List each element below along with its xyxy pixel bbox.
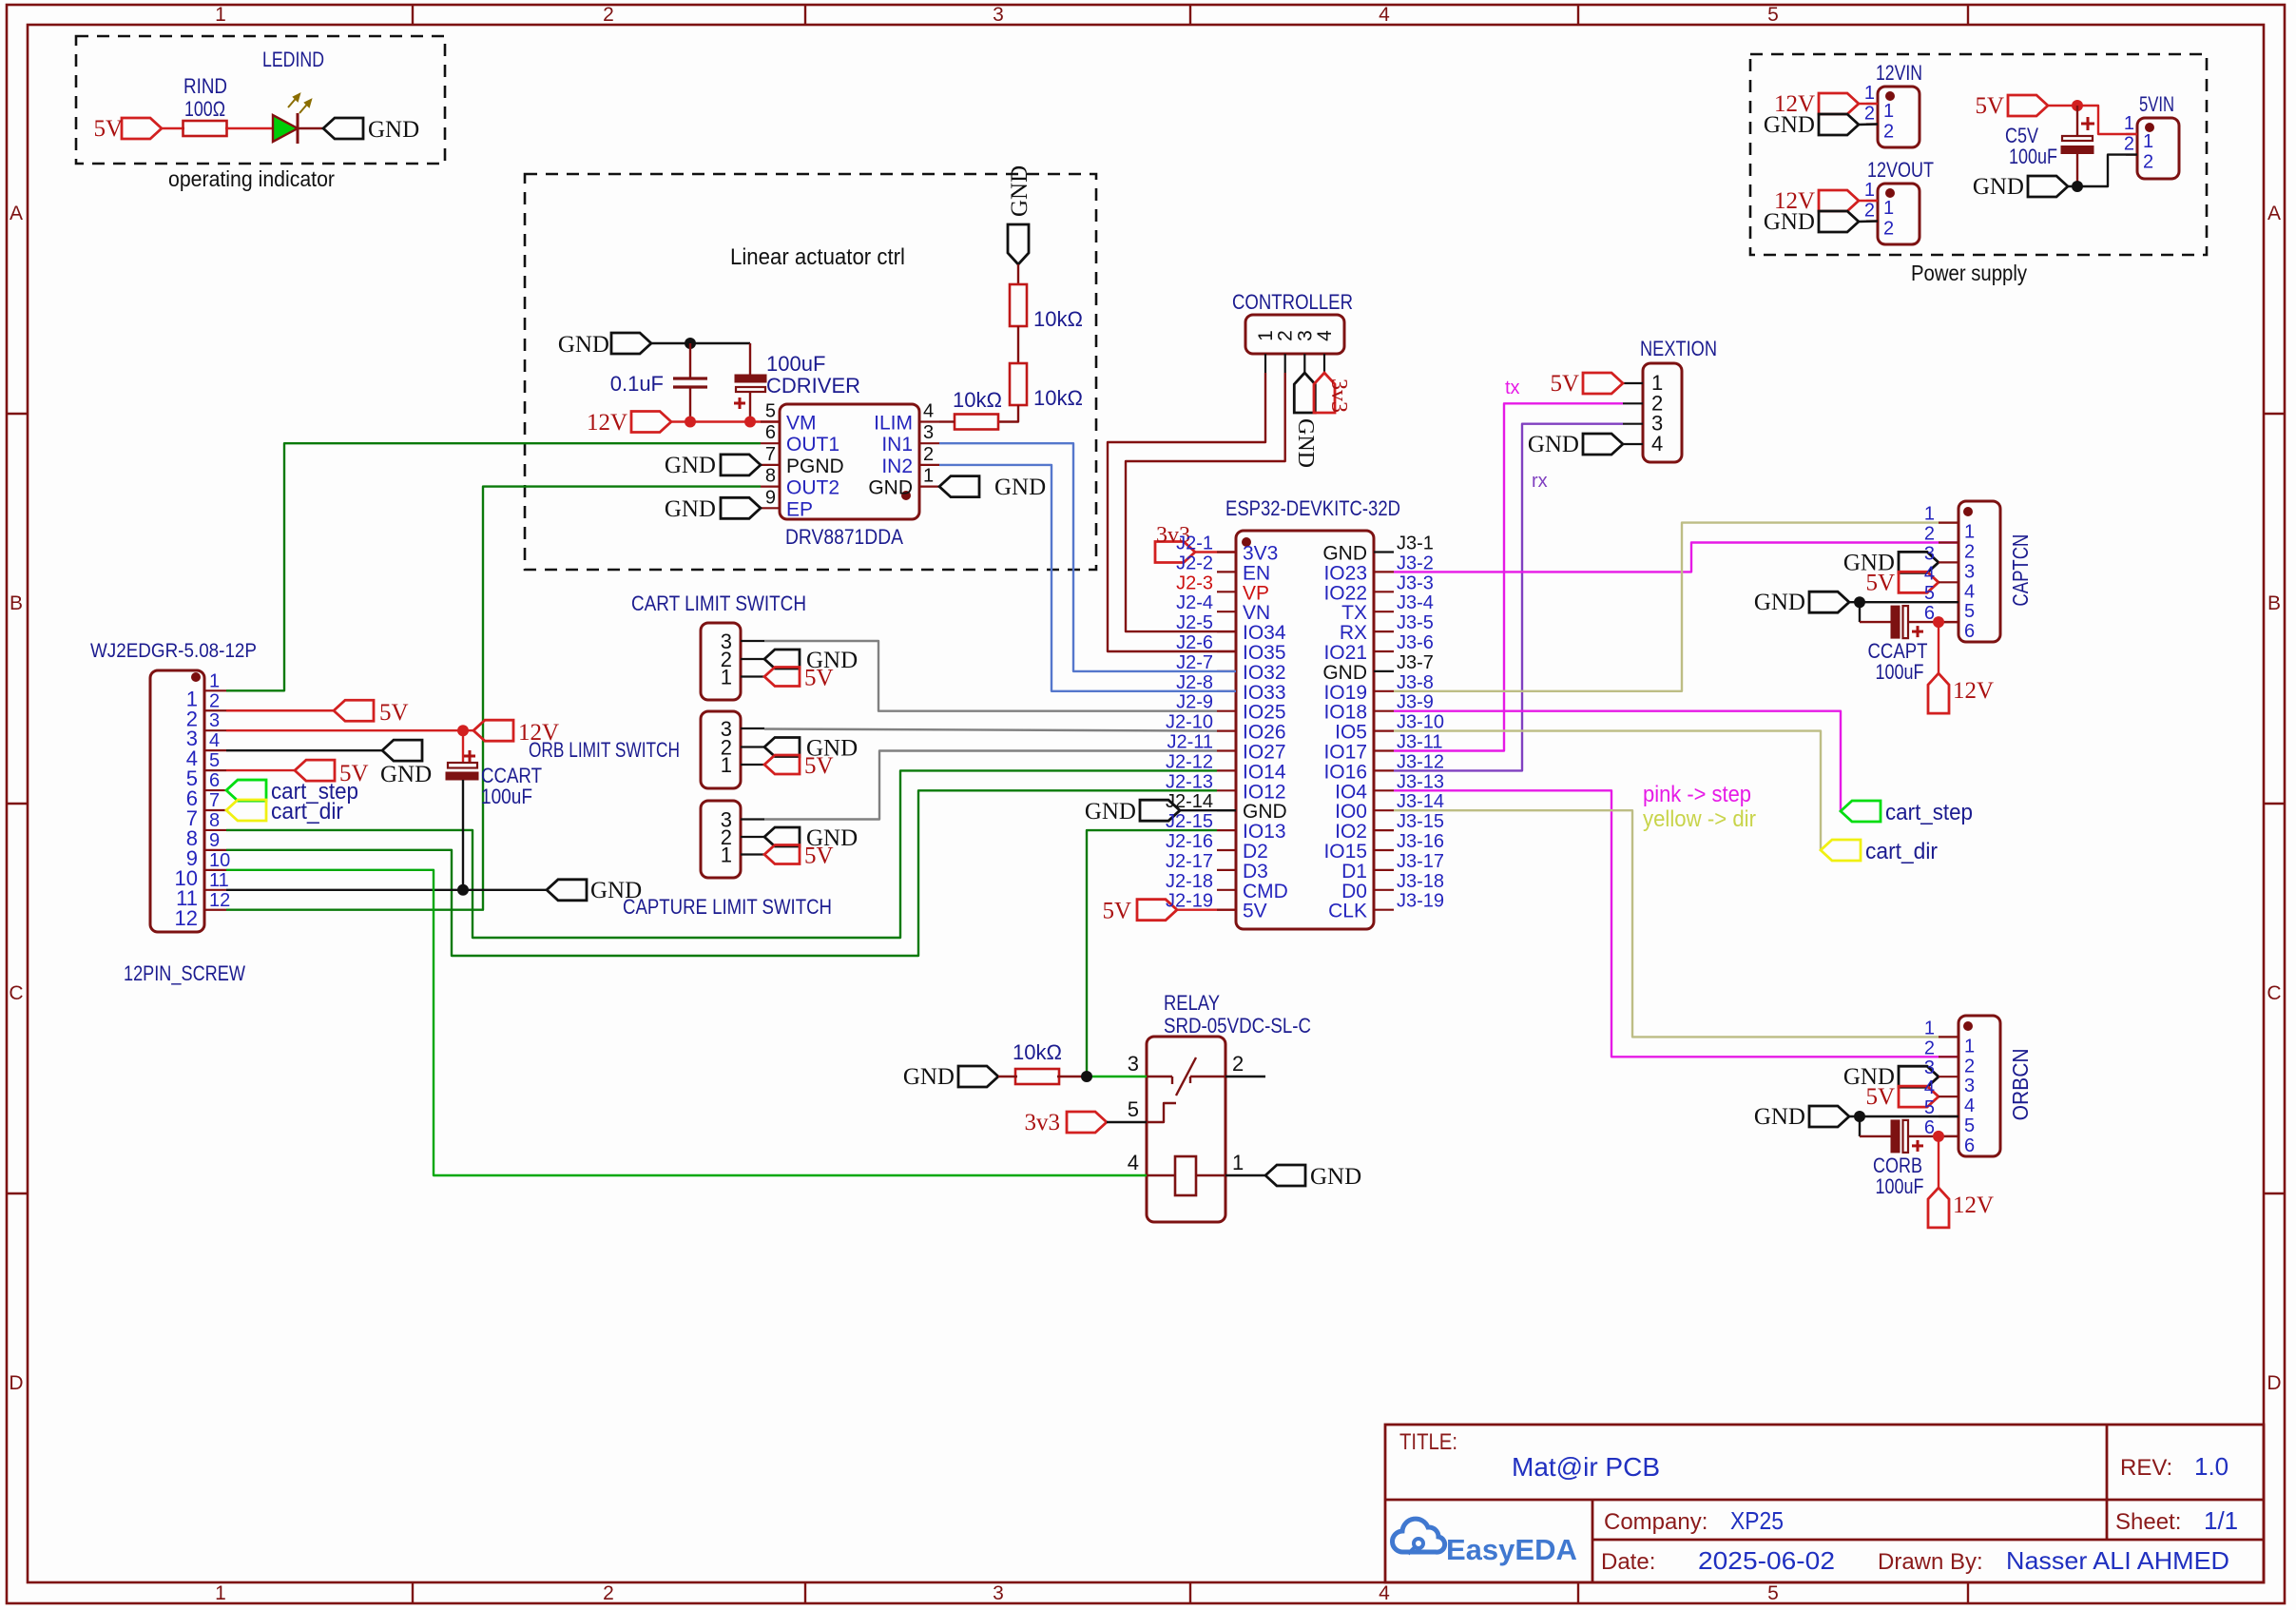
svg-text:ESP32-DEVKITC-32D: ESP32-DEVKITC-32D	[1225, 496, 1400, 520]
svg-text:IO17: IO17	[1323, 742, 1367, 764]
connector 5VIN	[2137, 118, 2179, 179]
svg-text:4: 4	[1924, 563, 1935, 584]
svg-text:RX: RX	[1340, 622, 1367, 644]
svg-text:GND: GND	[558, 332, 609, 358]
C5V plus sign	[2081, 123, 2094, 126]
svg-text:IO5: IO5	[1335, 722, 1367, 744]
relay K1 body	[1147, 1037, 1225, 1222]
svg-text:IO22: IO22	[1323, 582, 1367, 604]
svg-text:J3-12: J3-12	[1397, 751, 1444, 772]
connector NEXTION	[1643, 363, 1682, 462]
ORB LIMIT SWITCH pin 1	[741, 764, 764, 766]
svg-text:6: 6	[1964, 621, 1975, 642]
svg-text:J3-4: J3-4	[1397, 592, 1434, 613]
12PIN pin 10	[204, 869, 226, 871]
svg-text:4: 4	[1379, 1582, 1390, 1604]
svg-text:5V: 5V	[1975, 93, 2004, 119]
svg-text:4: 4	[1924, 1077, 1935, 1098]
svg-text:GND: GND	[994, 475, 1046, 500]
title block frame	[1385, 1425, 2264, 1582]
svg-text:4: 4	[1651, 432, 1663, 456]
svg-text:2: 2	[209, 690, 220, 711]
net flag cart_dir	[1821, 840, 1861, 861]
svg-text:B: B	[10, 592, 23, 614]
svg-text:5: 5	[765, 401, 776, 422]
svg-text:4: 4	[1379, 4, 1390, 26]
svg-text:EasyEDA: EasyEDA	[1446, 1533, 1577, 1566]
net flag 5V (ESP32 J2-19)	[1137, 900, 1177, 921]
ORBCN pin 4	[1939, 1096, 1958, 1097]
junction CCART / GND	[457, 884, 469, 896]
net flag 5V (12PIN pin5)	[226, 769, 295, 771]
ESP32 pin J3-18 D0	[1374, 889, 1394, 891]
capacitor CCAPT leads	[1859, 602, 1861, 622]
DRV8871 pin 1 GND	[919, 486, 939, 488]
svg-text:J2-17: J2-17	[1166, 851, 1213, 872]
wire R1 to R2	[1017, 326, 1019, 363]
svg-text:100uF: 100uF	[2009, 145, 2057, 168]
net flag 12V (CAPTCN)	[1928, 673, 1949, 713]
svg-text:2: 2	[1964, 542, 1975, 563]
svg-text:1: 1	[1883, 101, 1894, 122]
ORBCN pin1 marker	[1963, 1021, 1973, 1031]
svg-text:J3-13: J3-13	[1397, 771, 1444, 792]
svg-text:J3-14: J3-14	[1397, 791, 1444, 812]
svg-text:J3-11: J3-11	[1397, 732, 1443, 753]
svg-text:IO25: IO25	[1243, 702, 1286, 724]
svg-text:5V: 5V	[93, 116, 123, 142]
relay switch blade	[1176, 1057, 1196, 1096]
net flag 5V (5VIN)	[2008, 95, 2048, 116]
svg-text:IO12: IO12	[1243, 781, 1286, 803]
DRV8871 pin 6 OUT1	[761, 442, 780, 444]
12VOUT pin1 marker	[1885, 188, 1895, 198]
svg-text:1: 1	[215, 1582, 226, 1604]
svg-text:VP: VP	[1243, 582, 1269, 604]
net flag 12V (12VOUT)	[1819, 190, 1859, 211]
capacitor C5V leads	[2076, 106, 2078, 137]
svg-text:Nasser ALI AHMED: Nasser ALI AHMED	[2006, 1546, 2229, 1575]
svg-text:J2-18: J2-18	[1166, 871, 1213, 892]
svg-text:3: 3	[1294, 330, 1316, 341]
dashed box power supply	[1750, 54, 2207, 255]
CART LIMIT SWITCH pin 3	[741, 640, 764, 642]
svg-text:100uF: 100uF	[1876, 660, 1924, 684]
wire IO5 to cart_dir (khaki)	[1394, 731, 1821, 850]
svg-text:GND: GND	[1243, 801, 1287, 823]
ESP32 pin J3-11 IO17	[1374, 749, 1394, 751]
svg-text:0.1uF: 0.1uF	[610, 372, 664, 396]
svg-text:2: 2	[1864, 104, 1875, 125]
12PIN pin 11	[204, 889, 226, 891]
svg-text:J3-5: J3-5	[1397, 612, 1434, 633]
svg-text:1: 1	[721, 666, 732, 689]
wire GND to CAPTCN pin5	[1849, 601, 1958, 603]
CONTROLLER pin 4	[1323, 354, 1325, 373]
svg-text:12V: 12V	[1953, 1193, 1994, 1218]
12VOUT pin 2	[1866, 220, 1878, 222]
wire 12PIN pin8 to IO14 (green)	[226, 770, 1217, 938]
net flag 5V (ORB LIMIT SWITCH)	[764, 755, 800, 774]
wire GND to R1	[1017, 264, 1019, 284]
svg-text:PGND: PGND	[786, 456, 844, 477]
ESP32 pin J2-13 IO12	[1217, 789, 1236, 791]
svg-text:5V: 5V	[804, 753, 834, 779]
wire OUT1 to 12PIN pin1 (green)	[226, 443, 761, 690]
wire RIND to LED	[225, 127, 273, 129]
svg-text:1: 1	[1924, 504, 1935, 525]
svg-text:IO16: IO16	[1323, 761, 1367, 783]
net flag cart_step (12PIN pin6)	[226, 780, 266, 801]
5VIN pin1 marker	[2145, 123, 2154, 132]
svg-text:J3-7: J3-7	[1397, 652, 1434, 673]
svg-text:4: 4	[209, 730, 220, 751]
svg-text:6: 6	[765, 422, 776, 443]
wire CONTROLLER pin1 to IO35	[1108, 373, 1265, 651]
ORB LIMIT SWITCH pin 2	[741, 746, 764, 747]
ESP32 pin J3-5 RX	[1374, 630, 1394, 632]
capacitor CCART	[462, 730, 464, 764]
svg-text:J3-10: J3-10	[1397, 712, 1444, 733]
net flag GND (CAPTCN pin3)	[1899, 552, 1939, 572]
ESP32 pin J2-15 IO13	[1217, 829, 1236, 831]
svg-text:Power supply: Power supply	[1911, 261, 2027, 285]
wire CART SW to IO25 (grey)	[764, 641, 1217, 711]
ORBCN pin 5	[1939, 1115, 1958, 1117]
svg-text:GND: GND	[868, 477, 913, 499]
CONTROLLER pin 1	[1264, 354, 1266, 373]
junction GND / C5V	[2072, 181, 2083, 192]
svg-text:4: 4	[1964, 581, 1975, 602]
dashed box operating indicator	[76, 36, 445, 164]
net flag GND (5VIN)	[2028, 176, 2068, 197]
net flag 12V (driver)	[631, 412, 671, 433]
svg-text:9: 9	[209, 830, 220, 851]
svg-text:2025-06-02: 2025-06-02	[1698, 1546, 1835, 1575]
junction GND / cap (CAPTCN)	[1854, 596, 1865, 608]
net flag GND (ORB LIMIT SWITCH)	[764, 738, 800, 757]
svg-text:TITLE:: TITLE:	[1399, 1429, 1457, 1455]
svg-text:12PIN_SCREW: 12PIN_SCREW	[124, 961, 245, 985]
svg-text:CART LIMIT SWITCH: CART LIMIT SWITCH	[631, 592, 806, 615]
capacitor 0.1uF	[689, 343, 691, 378]
svg-text:CAPTCN: CAPTCN	[2008, 534, 2033, 607]
svg-text:2: 2	[1924, 524, 1935, 545]
junction relay pin3	[1081, 1071, 1092, 1082]
DRV8871 pin 8 OUT2	[761, 486, 780, 488]
svg-text:1: 1	[2124, 113, 2134, 134]
svg-text:5V: 5V	[1865, 1084, 1895, 1110]
svg-text:Date:: Date:	[1601, 1549, 1655, 1575]
svg-text:DRV8871DDA: DRV8871DDA	[785, 525, 903, 549]
svg-text:GND: GND	[380, 762, 432, 787]
net flag 5V (ORBCN pin4)	[1899, 1086, 1939, 1107]
wire GND (12PIN pin11)	[226, 889, 547, 891]
svg-text:C: C	[9, 982, 23, 1004]
svg-text:NEXTION: NEXTION	[1640, 337, 1717, 360]
svg-text:5V: 5V	[1243, 901, 1267, 922]
svg-text:J2-1: J2-1	[1176, 533, 1213, 554]
12VIN pin 2	[1866, 123, 1878, 125]
svg-text:J2-9: J2-9	[1176, 692, 1213, 713]
svg-text:IO18: IO18	[1323, 702, 1367, 724]
svg-text:ORBCN: ORBCN	[2008, 1048, 2033, 1120]
svg-text:GND: GND	[1973, 174, 2024, 200]
svg-text:yellow -> dir: yellow -> dir	[1643, 806, 1756, 832]
svg-text:1: 1	[1964, 522, 1975, 543]
svg-text:Drawn By:: Drawn By:	[1878, 1549, 1983, 1575]
svg-text:6: 6	[209, 770, 220, 791]
CAPTCN pin 6	[1939, 621, 1958, 623]
svg-text:Linear actuator ctrl: Linear actuator ctrl	[730, 244, 905, 270]
svg-text:IO13: IO13	[1243, 821, 1286, 843]
svg-text:IO35: IO35	[1243, 642, 1286, 664]
svg-text:cart_dir: cart_dir	[1865, 839, 1938, 864]
svg-text:5: 5	[1964, 601, 1975, 622]
svg-text:3v3: 3v3	[1326, 378, 1351, 413]
svg-text:4: 4	[923, 401, 934, 422]
svg-text:5: 5	[1767, 1582, 1779, 1604]
DRV8871 pin 3 IN1	[919, 442, 939, 444]
svg-text:SRD-05VDC-SL-C: SRD-05VDC-SL-C	[1164, 1014, 1311, 1038]
net flag 12V (ORBCN)	[1928, 1188, 1949, 1228]
svg-text:10kΩ: 10kΩ	[1013, 1040, 1062, 1064]
wire 12V riser (CAPTCN)	[1938, 622, 1939, 673]
connector ORB LIMIT SWITCH	[701, 711, 741, 788]
12PIN pin 6	[204, 789, 226, 791]
connector 12VIN	[1878, 87, 1920, 147]
svg-text:Mat@ir PCB: Mat@ir PCB	[1512, 1452, 1660, 1482]
net flag GND (ESP32 J2-14)	[1140, 800, 1180, 821]
svg-text:D3: D3	[1243, 861, 1268, 883]
svg-text:CMD: CMD	[1243, 881, 1288, 902]
ESP32 pin J3-15 IO2	[1374, 829, 1394, 831]
12PIN pin 5	[204, 769, 226, 771]
resistor RIND	[183, 121, 227, 136]
ESP32 pin J2-5 IO34	[1217, 630, 1236, 632]
svg-text:GND: GND	[1310, 1164, 1361, 1190]
ESP32 pin J3-7 GND	[1374, 670, 1394, 672]
ESP32 pin J3-8 IO19	[1374, 690, 1394, 692]
ESP32 pin1 marker	[1242, 537, 1251, 547]
CAPTCN pin 2	[1939, 541, 1958, 543]
CAPTURE LIMIT SWITCH pin 1	[741, 853, 764, 855]
ESP32 pin J2-10 IO26	[1217, 729, 1236, 731]
svg-text:operating indicator: operating indicator	[168, 166, 335, 191]
wire junction to relay pin3 (green)	[1087, 1076, 1147, 1077]
LED arrows	[288, 94, 311, 113]
svg-text:9: 9	[765, 487, 776, 508]
12VIN pin1 marker	[1885, 91, 1895, 101]
svg-text:VM: VM	[786, 413, 817, 435]
svg-text:10kΩ: 10kΩ	[953, 388, 1002, 412]
svg-text:J3-17: J3-17	[1397, 851, 1444, 872]
wire CONTROLLER pin2 to IO34	[1126, 373, 1285, 631]
svg-text:3: 3	[209, 710, 220, 731]
net flag GND (driver caps)	[611, 333, 651, 354]
svg-text:GND: GND	[903, 1064, 955, 1090]
svg-text:12VOUT: 12VOUT	[1867, 158, 1934, 182]
svg-text:3V3: 3V3	[1243, 543, 1278, 565]
wire 5V to 5VIN pin1	[2048, 106, 2137, 134]
net flag 3v3 (CONTROLLER pin4)	[1314, 373, 1335, 413]
net flag 5V (12PIN pin2)	[226, 709, 334, 711]
NEXTION pin 3	[1623, 423, 1643, 425]
junction 12V / CCART	[457, 725, 469, 736]
svg-text:J2-3: J2-3	[1176, 572, 1213, 593]
wire 12V (12PIN pin3)	[226, 729, 473, 731]
wire IO18 to cart_step (magenta)	[1394, 711, 1841, 811]
svg-text:RIND: RIND	[183, 74, 227, 98]
wire GND to ORBCN pin5	[1849, 1115, 1958, 1117]
svg-text:5V: 5V	[1102, 899, 1131, 924]
junction 12V / CDRIVER	[744, 417, 756, 428]
svg-text:GND: GND	[1764, 112, 1815, 138]
op-amp U1 DRV8871DDA body	[780, 404, 919, 519]
wire GND to 5VIN pin2	[2068, 155, 2137, 186]
wire ORB SW to IO26 (grey)	[764, 729, 1217, 731]
net flag GND (indicator)	[323, 118, 363, 139]
connector 12VOUT	[1878, 184, 1920, 244]
svg-text:3: 3	[993, 4, 1004, 26]
5VIN pin 2	[2126, 154, 2137, 156]
ORB LIMIT SWITCH pin 3	[741, 727, 764, 729]
ESP32 pin J2-2 EN	[1217, 571, 1236, 572]
wire rx NEXTION pin3 to IO16	[1394, 424, 1623, 771]
capacitor CDRIVER 100uF	[749, 343, 751, 377]
capacitor plates (ORBCN)	[1891, 1120, 1900, 1153]
svg-text:J3-15: J3-15	[1397, 811, 1444, 832]
ESP32 pin J2-1 3V3	[1217, 551, 1236, 553]
ESP32 pin J2-12 IO14	[1217, 769, 1236, 771]
svg-text:1: 1	[209, 670, 220, 691]
svg-text:3v3: 3v3	[1025, 1110, 1061, 1135]
svg-text:LEDIND: LEDIND	[262, 48, 324, 71]
NEXTION pin 2	[1623, 402, 1643, 404]
wire IO13 to relay junction (green)	[1087, 830, 1217, 1077]
12PIN pin 1	[204, 689, 226, 691]
svg-text:OUT1: OUT1	[786, 434, 839, 456]
net flag cart_dir (12PIN pin7)	[226, 800, 266, 821]
svg-text:J3-16: J3-16	[1397, 831, 1444, 852]
svg-text:6: 6	[1964, 1135, 1975, 1156]
svg-text:8: 8	[765, 466, 776, 487]
relay switch contacts	[1147, 1076, 1172, 1077]
ESP32 pin J2-16 D2	[1217, 849, 1236, 851]
net flag GND (ILIM chain, rotated)	[1008, 224, 1029, 264]
svg-text:5: 5	[1964, 1115, 1975, 1136]
resistor R1 10k (vertical)	[1010, 284, 1027, 326]
svg-text:1: 1	[1964, 1036, 1975, 1057]
svg-text:100Ω: 100Ω	[184, 97, 225, 121]
svg-text:XP25: XP25	[1730, 1506, 1784, 1535]
svg-text:IO32: IO32	[1243, 662, 1286, 684]
svg-text:WJ2EDGR-5.08-12P: WJ2EDGR-5.08-12P	[90, 640, 257, 662]
svg-text:CLK: CLK	[1328, 901, 1367, 922]
relay coil	[1175, 1156, 1196, 1195]
wire tx NEXTION pin2 to IO17	[1394, 403, 1623, 750]
svg-text:IO4: IO4	[1335, 781, 1367, 803]
svg-text:cart_dir: cart_dir	[271, 799, 343, 824]
CAPTCN pin 5	[1939, 601, 1958, 603]
ESP32 pin J3-10 IO5	[1374, 729, 1394, 731]
DRV8871 pin 4 ILIM	[919, 420, 939, 422]
junction 12V / cap (CAPTCN)	[1933, 616, 1944, 628]
svg-text:5: 5	[1924, 583, 1935, 604]
wire IO23 to CAPTCN pin2 (magenta)	[1394, 543, 1958, 572]
wire IN1 to IO32 (blue)	[939, 443, 1236, 671]
svg-text:CAPTURE LIMIT SWITCH: CAPTURE LIMIT SWITCH	[623, 895, 832, 919]
CAPTCN pin 4	[1939, 581, 1958, 583]
NEXTION pin 4	[1623, 443, 1643, 445]
wire relay pin1 to GND	[1225, 1174, 1265, 1176]
CAPTCN pin 1	[1939, 521, 1958, 523]
ESP32 pin J2-6 IO35	[1217, 650, 1236, 652]
capacitor plates (CAPTCN)	[1891, 606, 1900, 638]
svg-text:GND: GND	[1764, 209, 1815, 235]
svg-text:IO33: IO33	[1243, 682, 1286, 704]
chip U2 ESP32-DEVKITC-32D body	[1236, 531, 1374, 929]
svg-text:2: 2	[2143, 152, 2153, 173]
wire OUT2 (green)	[226, 487, 761, 910]
net flag 3v3 (ESP32 3V3)	[1155, 542, 1195, 563]
net flag GND (DRV GND pin)	[939, 476, 979, 497]
wire 12V to 12VOUT pin1	[1859, 200, 1878, 202]
svg-text:2: 2	[1964, 1056, 1975, 1077]
svg-text:3: 3	[1128, 1052, 1139, 1076]
svg-text:J2-6: J2-6	[1176, 632, 1213, 653]
frame row ticks left	[7, 413, 28, 415]
svg-text:100uF: 100uF	[481, 785, 532, 808]
svg-text:J3-1: J3-1	[1397, 533, 1434, 554]
svg-text:GND: GND	[1322, 662, 1367, 684]
frame row ticks right	[2264, 413, 2285, 415]
svg-text:C: C	[2267, 982, 2281, 1004]
cap plus sign (CAPTCN)	[1912, 630, 1923, 633]
svg-text:TX: TX	[1341, 602, 1367, 624]
ESP32 pin J3-6 IO21	[1374, 650, 1394, 652]
net flag GND (EP)	[721, 497, 761, 518]
svg-text:12V: 12V	[1953, 678, 1994, 704]
net flag GND (relay R4)	[958, 1066, 998, 1087]
svg-text:CDRIVER: CDRIVER	[766, 374, 860, 398]
wire GND to 12VOUT pin2	[1859, 220, 1878, 223]
svg-text:GND: GND	[1754, 590, 1805, 615]
svg-text:1: 1	[215, 4, 226, 26]
svg-text:8: 8	[209, 810, 220, 831]
svg-text:1.0: 1.0	[2194, 1452, 2228, 1481]
net flag GND (12VIN)	[1819, 114, 1859, 135]
svg-text:J3-3: J3-3	[1397, 572, 1434, 593]
svg-text:IO15: IO15	[1323, 841, 1367, 863]
net flag GND (CAPTCN pin5)	[1809, 592, 1849, 612]
connector CAPTURE LIMIT SWITCH	[701, 801, 741, 878]
dashed box Linear actuator ctrl	[525, 174, 1096, 570]
svg-text:5V: 5V	[804, 666, 834, 691]
svg-text:J2-14: J2-14	[1166, 791, 1213, 812]
svg-text:J3-19: J3-19	[1397, 891, 1444, 912]
svg-text:2: 2	[1864, 201, 1875, 222]
CONTROLLER pin 2	[1284, 354, 1286, 373]
svg-text:5VIN: 5VIN	[2139, 92, 2174, 116]
svg-text:2: 2	[1275, 330, 1297, 341]
svg-text:10: 10	[209, 850, 230, 871]
net flag GND (ORBCN pin5)	[1809, 1106, 1849, 1127]
DRV8871 pin 2 IN2	[919, 464, 939, 466]
ESP32 pin J2-17 D3	[1217, 869, 1236, 871]
svg-text:4: 4	[1964, 1096, 1975, 1116]
svg-text:1: 1	[1883, 198, 1894, 219]
